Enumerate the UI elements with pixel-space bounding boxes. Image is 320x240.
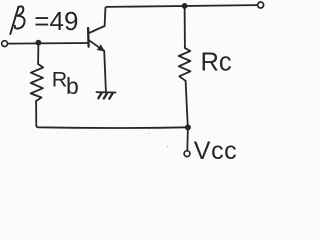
- beta symbol (handwritten): [10, 6, 24, 34]
- wire: Rb to bottom rail: [35, 101, 37, 125]
- node: collector / Rc junction: [182, 3, 188, 9]
- wire: junction down to Rc: [184, 6, 186, 48]
- transistor Q1 emitter arrowhead: [98, 45, 104, 51]
- transistor Q1 base bar: [87, 28, 90, 47]
- Vcc terminal: [184, 151, 190, 157]
- svg-text:=49: =49: [34, 6, 78, 36]
- node: bottom rail / Vcc junction: [185, 124, 191, 130]
- wire: top rail from collector to output terminal: [105, 5, 257, 8]
- wire: bottom rail: [36, 125, 188, 128]
- wire: Rc to bottom junction: [186, 81, 188, 127]
- wire: junction down to Vcc terminal: [186, 127, 189, 150]
- wire: emitter to ground: [104, 51, 106, 92]
- svg-text:b: b: [66, 73, 79, 99]
- resistor Rc (zigzag): [179, 48, 191, 81]
- svg-text:Vcc: Vcc: [194, 137, 237, 163]
- input terminal (left): [2, 41, 8, 47]
- resistor Rb (zigzag): [31, 64, 44, 101]
- output terminal (top right): [258, 2, 264, 8]
- wire: Rb branch down from base junction: [37, 43, 39, 64]
- svg-text:R: R: [52, 68, 68, 92]
- transistor Q1 emitter lead: [89, 40, 103, 50]
- transistor Q1 collector lead: [89, 8, 105, 33]
- wire: base wire from input terminal to transistor base: [8, 42, 88, 45]
- ground symbol: [96, 92, 115, 99]
- node: base junction: [36, 40, 42, 46]
- svg-text:Rc: Rc: [201, 48, 232, 76]
- faint scan specks: [167, 146, 169, 148]
